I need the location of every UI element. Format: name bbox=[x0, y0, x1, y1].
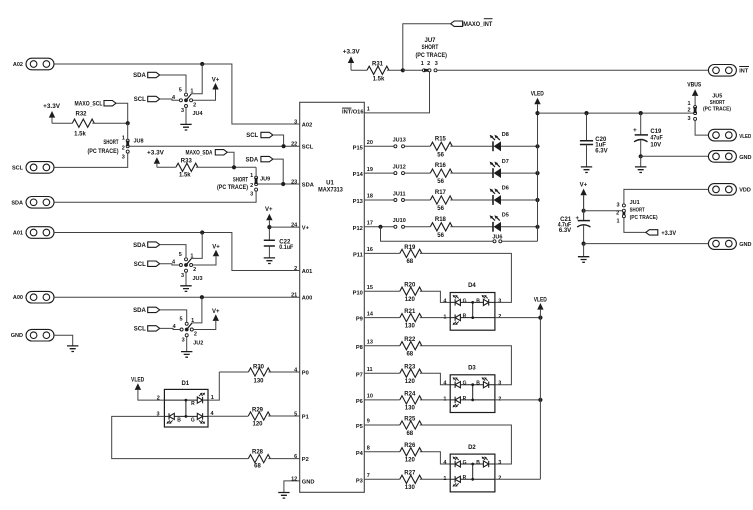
svg-text:JU4: JU4 bbox=[193, 111, 204, 117]
jumper JU5 SHORT (PC TRACE) bbox=[703, 93, 731, 112]
resistor R22 68 bbox=[400, 337, 422, 357]
node D1 center bottom bbox=[185, 415, 188, 418]
diode B inside D3 bbox=[476, 377, 488, 388]
svg-text:130: 130 bbox=[405, 406, 416, 412]
pad A00 (left) bbox=[13, 291, 54, 303]
node junction A02/JU4 bbox=[200, 62, 204, 66]
wire JU10 to R18 bbox=[405, 226, 431, 228]
svg-text:56: 56 bbox=[437, 233, 444, 239]
wire IC to jumper JU13 bbox=[364, 145, 394, 147]
svg-text:P0: P0 bbox=[302, 370, 309, 376]
svg-text:MAXO_SDA: MAXO_SDA bbox=[186, 151, 214, 157]
power V+ (JU4) bbox=[193, 78, 220, 101]
svg-text:+3.3V: +3.3V bbox=[343, 49, 360, 55]
svg-text:17: 17 bbox=[367, 221, 373, 227]
svg-text:GND: GND bbox=[11, 333, 23, 339]
svg-text:A00: A00 bbox=[302, 296, 312, 302]
svg-text:P14: P14 bbox=[353, 172, 364, 178]
svg-text:V+: V+ bbox=[580, 183, 588, 189]
power VLED (D1) bbox=[131, 378, 164, 401]
svg-text:2: 2 bbox=[194, 332, 197, 338]
node junction C19 bbox=[639, 111, 643, 115]
svg-text:8: 8 bbox=[367, 446, 370, 452]
svg-text:SHORT: SHORT bbox=[422, 45, 439, 51]
svg-text:47uF: 47uF bbox=[650, 135, 663, 141]
svg-text:15: 15 bbox=[367, 285, 373, 291]
wire R15 to LED D8 bbox=[450, 145, 493, 147]
resistor R29 120 bbox=[248, 407, 270, 427]
svg-text:D1: D1 bbox=[181, 381, 189, 387]
svg-text:6.3V: 6.3V bbox=[595, 148, 607, 154]
svg-text:SDA: SDA bbox=[11, 200, 23, 206]
node VLED rail D6 bbox=[535, 198, 539, 202]
wire JU12 to R16 bbox=[405, 172, 431, 174]
pad A01 (left) bbox=[13, 227, 54, 239]
svg-text:+3.3V: +3.3V bbox=[661, 231, 676, 237]
wire MAXO_SDA to junction bbox=[227, 152, 234, 167]
wire JU13 to R15 bbox=[405, 145, 431, 147]
resistor R32 1.5k bbox=[72, 112, 94, 138]
node D1 center top bbox=[185, 399, 188, 402]
svg-text:2: 2 bbox=[122, 146, 125, 152]
wire IC to R27 bbox=[364, 478, 400, 480]
svg-text:P1: P1 bbox=[302, 414, 309, 420]
wire D1 R diode to pin1 bbox=[203, 399, 208, 401]
diode G inside D2 bbox=[453, 457, 467, 468]
diode R inside D1 bbox=[191, 393, 205, 408]
wire D4 pin2 to VLED rail bbox=[495, 317, 541, 319]
wire D2 center vertical bbox=[472, 464, 474, 479]
power V+ (JU2) bbox=[194, 309, 220, 330]
wire IC to R26 bbox=[364, 451, 400, 453]
svg-text:R17: R17 bbox=[435, 190, 447, 196]
svg-text:130: 130 bbox=[405, 485, 416, 491]
svg-text:JU9: JU9 bbox=[260, 176, 270, 182]
svg-text:SCL: SCL bbox=[246, 133, 258, 139]
svg-text:2: 2 bbox=[498, 314, 501, 320]
svg-text:1: 1 bbox=[443, 397, 446, 403]
svg-text:1: 1 bbox=[688, 101, 691, 107]
svg-text:A02: A02 bbox=[13, 62, 23, 68]
wire VLED to JU5 pin2 bbox=[538, 112, 696, 114]
net flag SCL (IC) bbox=[246, 132, 273, 139]
resistor R33 1.5k bbox=[176, 159, 198, 179]
svg-text:D6: D6 bbox=[502, 186, 509, 192]
svg-text:R28: R28 bbox=[252, 450, 264, 456]
svg-text:1: 1 bbox=[443, 476, 446, 482]
wire JU8 pin2 to IC SCL pin 22 bbox=[129, 145, 300, 147]
wire JU7 pin2 to IC pin1 INT/O16 bbox=[364, 72, 429, 113]
svg-text:P3: P3 bbox=[356, 478, 363, 484]
ground (JU3 pin3) bbox=[185, 272, 187, 285]
diode R inside D2 bbox=[453, 475, 467, 487]
node D3 center bottom bbox=[471, 399, 474, 402]
wire SDA flag to JU3 pin5 bbox=[160, 245, 186, 258]
diode B inside D4 bbox=[476, 295, 488, 306]
wire MAXO_INT to JU7 junction bbox=[403, 24, 451, 71]
node VLED rail D8 bbox=[535, 144, 539, 148]
wire IC to jumper JU10 bbox=[364, 226, 394, 228]
node junction R31/MAXO_INT/JU7 bbox=[401, 68, 405, 72]
wire R33 line down to JU9 pin1 bbox=[255, 167, 257, 176]
wire SDA flag to JU2 pin5 bbox=[160, 310, 187, 322]
svg-text:5: 5 bbox=[179, 88, 182, 94]
wire D4 bottom row internal bbox=[450, 317, 495, 319]
svg-text:56: 56 bbox=[437, 206, 444, 212]
pad VLED (right) bbox=[708, 129, 751, 141]
svg-text:VLED: VLED bbox=[531, 92, 545, 98]
svg-text:2: 2 bbox=[193, 103, 196, 109]
svg-text:(PC TRACE): (PC TRACE) bbox=[415, 53, 447, 59]
wire D1 pin4 to R29 to IC pin 5 P1 bbox=[208, 415, 300, 417]
svg-text:G: G bbox=[463, 460, 467, 466]
capacitor C22 0.1uF bbox=[264, 239, 294, 250]
svg-text:56: 56 bbox=[437, 179, 444, 185]
wire D3 pin4 feed (from 120-ohm resistor) bbox=[420, 373, 450, 385]
svg-text:GND: GND bbox=[739, 242, 751, 248]
svg-text:18: 18 bbox=[367, 194, 373, 200]
pad GND (right lower) bbox=[708, 238, 751, 250]
wire SCL flag to JU3 pin4 bbox=[160, 264, 180, 265]
svg-text:120: 120 bbox=[405, 379, 416, 385]
LED D8 bbox=[490, 132, 509, 151]
svg-text:D3: D3 bbox=[468, 366, 476, 372]
svg-text:1.5k: 1.5k bbox=[373, 77, 385, 83]
jumper JU10 bbox=[393, 218, 406, 228]
wire D4 top row internal bbox=[450, 301, 495, 303]
capacitor C19 47uF 10V (polarized) bbox=[633, 113, 663, 149]
svg-text:R: R bbox=[463, 475, 467, 481]
svg-text:20: 20 bbox=[367, 140, 373, 146]
ground (IC GND pin12) bbox=[284, 481, 300, 492]
resistor R23 120 bbox=[400, 365, 422, 385]
wire IC to R21 bbox=[364, 317, 400, 319]
wire JU1 pin3 to VDD pad bbox=[624, 189, 709, 204]
wire D1 pin3 row internal bbox=[164, 415, 197, 417]
net flag +3.3V (JU1) bbox=[646, 230, 676, 237]
svg-text:2: 2 bbox=[193, 267, 196, 273]
wire IC to R20 bbox=[364, 290, 400, 292]
svg-text:2: 2 bbox=[157, 396, 160, 402]
svg-text:(PC TRACE): (PC TRACE) bbox=[630, 215, 658, 221]
svg-text:120: 120 bbox=[252, 422, 263, 428]
wire R30 to IC pin 4 P0 bbox=[219, 371, 299, 373]
jumper JU11 bbox=[393, 191, 406, 201]
power VLED (rail) bbox=[531, 92, 545, 105]
svg-text:INT/O16: INT/O16 bbox=[342, 110, 364, 116]
LED D1 (RGB) body bbox=[156, 381, 214, 427]
svg-text:120: 120 bbox=[405, 297, 416, 303]
svg-text:68: 68 bbox=[406, 352, 413, 358]
svg-text:R32: R32 bbox=[75, 112, 87, 118]
svg-text:+3.3V: +3.3V bbox=[147, 151, 164, 157]
jumper JU13 bbox=[393, 138, 406, 148]
svg-text:P13: P13 bbox=[353, 199, 363, 205]
svg-text:A01: A01 bbox=[302, 269, 312, 275]
svg-text:V+: V+ bbox=[265, 207, 273, 213]
diode G inside D4 bbox=[453, 295, 467, 306]
wire D4 center vertical bbox=[472, 302, 474, 317]
wire SCL flag to JU4 pin4 bbox=[160, 99, 180, 100]
svg-text:2: 2 bbox=[688, 108, 691, 114]
svg-text:5: 5 bbox=[179, 252, 182, 258]
svg-text:1: 1 bbox=[122, 135, 125, 141]
svg-text:P7: P7 bbox=[356, 372, 363, 378]
svg-text:120: 120 bbox=[405, 458, 416, 464]
wire junction to JU8 pin1 bbox=[127, 123, 129, 139]
wire VLED vertical rail bbox=[537, 104, 539, 241]
resistor R15 56 bbox=[430, 136, 452, 158]
svg-text:SDA: SDA bbox=[302, 182, 314, 188]
svg-text:R16: R16 bbox=[435, 163, 447, 169]
svg-text:V+: V+ bbox=[302, 226, 310, 232]
svg-text:3: 3 bbox=[498, 460, 501, 466]
svg-text:3: 3 bbox=[688, 116, 691, 122]
wire junction down to JU4 pin1 bbox=[186, 64, 202, 100]
svg-text:P15: P15 bbox=[353, 145, 363, 151]
svg-text:R: R bbox=[191, 401, 195, 407]
wire C21 to GND junction bbox=[583, 226, 585, 244]
wire JU9 pin2 to IC SDA pin 23 bbox=[258, 183, 300, 185]
svg-text:SCL: SCL bbox=[134, 262, 146, 268]
svg-text:MAXO_SCL: MAXO_SCL bbox=[75, 101, 103, 107]
wire SCL flag to JU2 pin4 bbox=[160, 328, 180, 329]
svg-text:P11: P11 bbox=[353, 253, 363, 259]
svg-text:7: 7 bbox=[367, 473, 370, 479]
wire D3 top row internal bbox=[450, 384, 495, 386]
node junction V+/C22/pin24 bbox=[267, 225, 271, 229]
svg-text:R: R bbox=[463, 396, 467, 402]
wire JU9 pin3 to SDA pad bbox=[54, 191, 256, 202]
jumper JU12 bbox=[393, 165, 406, 175]
svg-text:SHORT: SHORT bbox=[103, 140, 118, 146]
wire JU6 to VLED rail bbox=[502, 240, 538, 242]
net flag MAXO_INT bbox=[451, 19, 493, 28]
node junction P12/JU6 bbox=[378, 225, 382, 229]
wire D1 pin1 up to R30 bbox=[208, 372, 219, 400]
svg-text:P4: P4 bbox=[356, 451, 364, 457]
wire D2 top row internal bbox=[450, 463, 495, 465]
wire V+ junction to IC pin 24 bbox=[269, 226, 299, 228]
svg-text:JU2: JU2 bbox=[193, 340, 203, 346]
svg-text:A01: A01 bbox=[13, 231, 23, 237]
node VLED rail D3 bbox=[538, 398, 542, 402]
svg-text:R18: R18 bbox=[435, 217, 447, 223]
svg-text:0.1uF: 0.1uF bbox=[279, 245, 293, 251]
jumper JU8 SHORT (PC TRACE) bbox=[88, 139, 144, 155]
svg-text:B: B bbox=[476, 460, 480, 466]
svg-text:D4: D4 bbox=[468, 283, 476, 289]
svg-text:1: 1 bbox=[190, 253, 193, 259]
resistor R20 120 bbox=[400, 283, 422, 303]
svg-text:10: 10 bbox=[367, 394, 373, 400]
power +3.3V (R32) bbox=[43, 104, 60, 123]
pad SDA (left) bbox=[11, 197, 54, 209]
node D4 center bottom bbox=[471, 316, 474, 319]
wire R16 to LED D7 bbox=[450, 172, 493, 174]
wire JU7 pin3 to INT pad bbox=[437, 69, 708, 71]
wire JU11 to R17 bbox=[405, 199, 431, 201]
svg-text:B: B bbox=[476, 381, 480, 387]
resistor R31 1.5k bbox=[367, 61, 389, 82]
svg-text:JU10: JU10 bbox=[393, 218, 406, 224]
wire D2 pin2 to VLED rail bbox=[495, 478, 541, 480]
wire LED D6 to VLED rail bbox=[501, 199, 538, 201]
resistor R30 130 bbox=[248, 365, 270, 385]
jumper JU1 SHORT (PC TRACE) bbox=[630, 200, 658, 221]
svg-text:+: + bbox=[633, 127, 637, 134]
svg-text:13: 13 bbox=[367, 339, 373, 345]
resistor R25 68 bbox=[400, 416, 422, 436]
svg-text:5: 5 bbox=[179, 317, 182, 323]
power VLED (lower rail) bbox=[534, 297, 548, 309]
wire SDA flag to JU4 pin5 bbox=[160, 75, 186, 92]
node junction A00/JU2 bbox=[200, 295, 204, 299]
node D2 center bottom bbox=[471, 478, 474, 481]
wire D2 pin4 feed (from 120-ohm resistor) bbox=[420, 452, 450, 464]
wire JU5 pin3 to VLED pad bbox=[695, 120, 708, 135]
node junction SCL flag bbox=[282, 144, 286, 148]
svg-text:130: 130 bbox=[405, 323, 416, 329]
net flag SDA (JU3) bbox=[133, 242, 160, 249]
svg-text:VLED: VLED bbox=[534, 297, 548, 303]
node junction SDA flag bbox=[281, 182, 285, 186]
wire junction down to JU2 pin1 bbox=[187, 297, 202, 329]
svg-text:D2: D2 bbox=[468, 445, 476, 451]
resistor R24 130 bbox=[400, 391, 422, 411]
svg-text:3: 3 bbox=[616, 202, 619, 208]
resistor R21 130 bbox=[400, 309, 422, 329]
svg-text:68: 68 bbox=[406, 431, 413, 437]
svg-text:1: 1 bbox=[443, 314, 446, 320]
svg-text:3: 3 bbox=[181, 273, 184, 279]
node D4 center top bbox=[471, 301, 474, 304]
resistor R27 130 bbox=[400, 471, 422, 491]
svg-text:1.5k: 1.5k bbox=[74, 132, 86, 138]
svg-text:D7: D7 bbox=[502, 159, 509, 165]
pad A02 (left) bbox=[13, 58, 54, 70]
wire D4 pin3 feed (from 68-ohm resistor) bbox=[420, 253, 512, 302]
net flag SCL (JU3) bbox=[134, 261, 160, 268]
svg-text:2: 2 bbox=[250, 183, 253, 189]
node junction VLED/caps bbox=[535, 111, 539, 115]
LED D6 bbox=[490, 186, 509, 205]
svg-text:P10: P10 bbox=[353, 290, 363, 296]
svg-text:B: B bbox=[177, 418, 181, 424]
svg-text:14: 14 bbox=[367, 311, 374, 317]
node junction V+/JU1 bbox=[582, 209, 586, 213]
svg-text:68: 68 bbox=[254, 464, 261, 470]
ground (JU2 pin3) bbox=[186, 337, 188, 352]
node D2 center top bbox=[471, 463, 474, 466]
op-amp U1 MAX7313 IC body bbox=[300, 102, 365, 492]
svg-text:3: 3 bbox=[435, 61, 438, 67]
svg-text:GND: GND bbox=[302, 479, 315, 485]
wire junction to GND pad (right) bbox=[641, 155, 709, 157]
jumper JU6 bbox=[492, 234, 502, 242]
svg-text:2: 2 bbox=[616, 211, 619, 217]
resistor R19 68 bbox=[400, 245, 422, 265]
wire R28 to IC pin 6 P2 bbox=[268, 458, 299, 460]
pad INT (right) bbox=[708, 65, 749, 77]
jumper JU9 SHORT (PC TRACE) bbox=[217, 176, 270, 191]
svg-text:19: 19 bbox=[367, 167, 373, 173]
wire LED D8 to VLED rail bbox=[501, 145, 538, 147]
svg-text:11: 11 bbox=[367, 367, 373, 373]
power +3.3V (R33) bbox=[147, 151, 164, 168]
wire IC to jumper JU11 bbox=[364, 199, 394, 201]
svg-text:D5: D5 bbox=[502, 213, 509, 219]
svg-text:VBUS: VBUS bbox=[687, 83, 701, 89]
svg-text:1: 1 bbox=[190, 89, 193, 95]
jumper JU7 SHORT (PC TRACE) bbox=[403, 38, 447, 72]
svg-text:1: 1 bbox=[367, 107, 370, 113]
LED D5 bbox=[490, 213, 509, 232]
power VBUS bbox=[687, 83, 701, 106]
svg-text:10V: 10V bbox=[650, 143, 661, 149]
node VLED rail D4 bbox=[538, 316, 542, 320]
pad VDD (right) bbox=[708, 184, 750, 196]
node VLED rail D5 bbox=[535, 225, 539, 229]
svg-text:MAX7313: MAX7313 bbox=[318, 187, 343, 193]
net flag SDA (IC) bbox=[246, 156, 273, 163]
node junction A01/JU3 bbox=[200, 230, 204, 234]
resistor R16 56 bbox=[430, 163, 452, 185]
wire +3.3V to R31 to junction bbox=[351, 69, 403, 71]
power +3.3V (R31) bbox=[343, 49, 360, 70]
svg-text:C19: C19 bbox=[650, 129, 662, 135]
svg-text:P12: P12 bbox=[353, 226, 363, 232]
jumper JU4 bbox=[172, 88, 204, 118]
svg-text:R29: R29 bbox=[252, 407, 264, 413]
diode G inside D3 bbox=[453, 377, 467, 388]
svg-text:V+: V+ bbox=[212, 244, 220, 250]
net flag MAXO_SDA bbox=[186, 150, 228, 157]
wire SCL flag to junction bbox=[273, 135, 284, 145]
wire D1 pin2 row internal bbox=[164, 399, 197, 401]
svg-text:INT: INT bbox=[739, 68, 749, 74]
wire D1 pin3 down to R28 bbox=[112, 416, 249, 458]
svg-text:56: 56 bbox=[437, 152, 444, 158]
LED D3 (RGB) body bbox=[443, 366, 501, 413]
wire R17 to LED D6 bbox=[450, 199, 493, 201]
node junction R33/MAXO_SDA bbox=[232, 165, 236, 169]
diode G inside D1 bbox=[191, 413, 205, 424]
net flag MAXO_SCL bbox=[75, 101, 117, 108]
wire R18 to LED D5 bbox=[450, 226, 493, 228]
LED D2 (RGB) body bbox=[443, 445, 501, 492]
wire D2 bottom row internal bbox=[450, 478, 495, 480]
wire D3 center vertical bbox=[472, 385, 474, 400]
wire D3 pin2 to VLED rail bbox=[495, 399, 541, 401]
ground (GND pad) bbox=[54, 335, 73, 346]
svg-text:16: 16 bbox=[367, 247, 373, 253]
svg-text:2: 2 bbox=[498, 476, 501, 482]
capacitor C20 1uF 6.3V bbox=[580, 113, 608, 154]
wire D3 pin1 feed (from 130-ohm resistor) bbox=[420, 399, 450, 401]
svg-text:6.3V: 6.3V bbox=[559, 228, 571, 234]
wire D4 pin4 feed (from 120-ohm resistor) bbox=[420, 291, 450, 302]
svg-text:A02: A02 bbox=[302, 122, 312, 128]
wire D2 pin1 feed (from 130-ohm resistor) bbox=[420, 478, 450, 480]
ground (JU4 pin3) bbox=[185, 107, 187, 124]
svg-text:SHORT: SHORT bbox=[630, 207, 646, 213]
svg-text:SHORT: SHORT bbox=[710, 100, 726, 106]
node junction C19/GND pad bbox=[639, 154, 643, 158]
svg-text:1: 1 bbox=[191, 318, 194, 324]
svg-text:R15: R15 bbox=[435, 136, 447, 142]
ground (C19) bbox=[640, 156, 642, 166]
